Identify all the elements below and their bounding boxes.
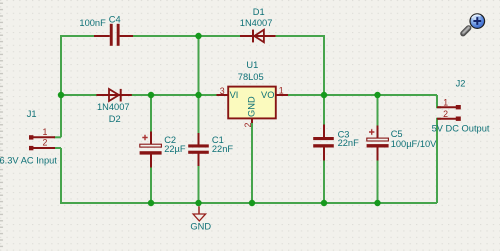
capacitor C2 bbox=[140, 132, 162, 168]
svg-text:100nF: 100nF bbox=[79, 18, 106, 28]
svg-text:GND: GND bbox=[190, 222, 211, 232]
wire ground rail bbox=[61, 148, 437, 203]
svg-text:22nF: 22nF bbox=[212, 144, 234, 154]
pin VO wire (pin 1) bbox=[276, 94, 288, 96]
wire C5 branch upper bbox=[377, 95, 379, 126]
zoom cursor icon bbox=[463, 14, 485, 34]
svg-text:C5: C5 bbox=[391, 129, 403, 139]
svg-text:5V DC Output: 5V DC Output bbox=[432, 124, 490, 134]
svg-text:J1: J1 bbox=[27, 109, 37, 119]
wire C1 branch lower bbox=[198, 166, 200, 203]
svg-text:1N4007: 1N4007 bbox=[240, 18, 273, 28]
capacitor C5 bbox=[367, 126, 389, 161]
capacitor C1 bbox=[188, 133, 209, 166]
junction at J1 riser / input net bbox=[58, 92, 64, 98]
diode D1 bbox=[240, 30, 276, 43]
wire C2 branch upper bbox=[150, 95, 152, 132]
junction VO net / D1 drop bbox=[321, 92, 327, 98]
wire J2 pin1 riser bbox=[437, 95, 441, 107]
wire C2 branch lower bbox=[150, 167, 152, 203]
svg-text:3: 3 bbox=[220, 86, 225, 96]
svg-text:22nF: 22nF bbox=[338, 138, 360, 148]
junction input net / C1 tie bbox=[195, 92, 201, 98]
junction VO net / C5 branch bbox=[374, 92, 380, 98]
wire top rail from J1 riser to C4 bbox=[61, 36, 97, 137]
svg-text:D1: D1 bbox=[253, 7, 265, 17]
svg-text:6.3V AC Input: 6.3V AC Input bbox=[0, 156, 57, 166]
wire middle input net bbox=[61, 94, 217, 96]
svg-text:GND: GND bbox=[247, 96, 257, 117]
svg-text:J2: J2 bbox=[456, 79, 466, 89]
junction ground rail / U1 GND bbox=[249, 200, 255, 206]
wire J2 pin2 drop to ground rail bbox=[437, 119, 441, 203]
svg-text:22µF: 22µF bbox=[164, 144, 186, 154]
svg-text:U1: U1 bbox=[246, 60, 258, 70]
wire J1 pin2 stub bbox=[54, 147, 61, 149]
wire J1 pin1 stub bbox=[54, 136, 61, 138]
connector J1 bbox=[29, 135, 55, 150]
connector J2 bbox=[437, 105, 461, 121]
pin GND wire (pin 2) bbox=[251, 119, 253, 124]
svg-text:D2: D2 bbox=[109, 114, 121, 124]
svg-text:2: 2 bbox=[243, 122, 253, 127]
wire top rail C4 to D1 bbox=[133, 35, 240, 37]
wire U1 GND pin drop bbox=[251, 123, 253, 204]
regulator U1 78L05 body bbox=[228, 87, 276, 119]
svg-text:1: 1 bbox=[279, 85, 284, 95]
svg-text:C4: C4 bbox=[109, 15, 121, 25]
svg-text:1: 1 bbox=[43, 127, 48, 137]
capacitor C3 bbox=[313, 125, 334, 161]
pin VI wire (pin 3) bbox=[217, 94, 229, 96]
wire VO output net bbox=[288, 94, 437, 96]
junction ground rail / C3 bbox=[321, 200, 327, 206]
wire top rail D1 to right corner, down to VO net bbox=[276, 36, 324, 95]
wire C5 branch lower bbox=[377, 160, 379, 203]
junction input net / C2 branch bbox=[148, 92, 154, 98]
junction ground rail / C5 bbox=[374, 200, 380, 206]
wire C3 branch lower bbox=[323, 160, 325, 203]
svg-text:2: 2 bbox=[43, 137, 48, 147]
wire vertical C4/C1 tie bbox=[198, 36, 200, 95]
wire C1 branch upper bbox=[198, 95, 200, 133]
diode D2 bbox=[96, 89, 131, 102]
svg-text:1: 1 bbox=[443, 98, 448, 108]
svg-text:100µF/10V: 100µF/10V bbox=[391, 139, 437, 149]
ground bbox=[193, 206, 206, 221]
wire C3 branch upper bbox=[323, 95, 325, 125]
svg-text:VI: VI bbox=[230, 90, 239, 100]
capacitor C4 bbox=[94, 24, 133, 46]
svg-text:1N4007: 1N4007 bbox=[97, 102, 130, 112]
junction ground rail / C1 bbox=[195, 200, 201, 206]
junction top rail / C1 tie bbox=[195, 33, 201, 39]
junction ground rail / C2 bbox=[148, 200, 154, 206]
svg-text:2: 2 bbox=[443, 109, 448, 119]
svg-text:VO: VO bbox=[261, 90, 274, 100]
svg-text:78L05: 78L05 bbox=[238, 72, 264, 82]
